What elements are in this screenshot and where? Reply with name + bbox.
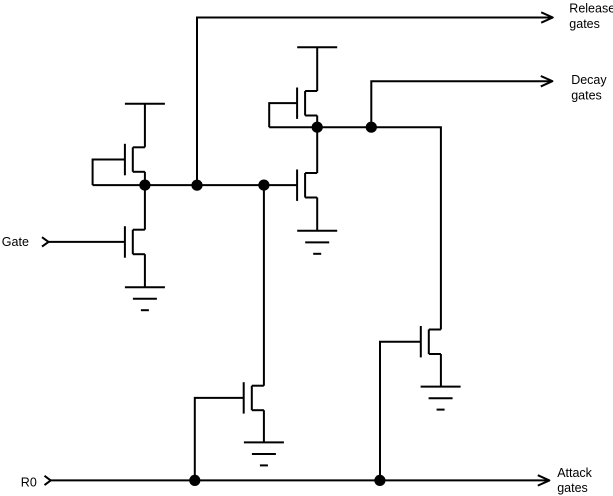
transistor Q2 (left driver) bbox=[125, 226, 145, 258]
transistor Q3 (right load) bbox=[297, 88, 317, 119]
transistor Q5 (bottom middle) bbox=[244, 382, 264, 413]
ground G4 bbox=[421, 387, 461, 410]
wire: Q3 drain to V2 bbox=[316, 47, 318, 91]
wire: Q2 drain to node A bbox=[144, 185, 146, 230]
wire: Q5 source to ground bbox=[263, 410, 265, 442]
ground G1 bbox=[125, 287, 165, 310]
wire: Q6 gate lead down to bottom rail node N7 bbox=[380, 342, 421, 481]
node (release tap) bbox=[191, 180, 202, 191]
node N7 (bottom rail / Q6 gate) bbox=[374, 475, 385, 486]
arrowhead Release output bbox=[541, 12, 553, 22]
node A (left inverter output) bbox=[139, 180, 150, 191]
arrowhead Decay output bbox=[541, 76, 553, 86]
ground G2 bbox=[297, 231, 337, 254]
svg-text:R0: R0 bbox=[21, 476, 37, 490]
power rail V1 (left inverter) bbox=[125, 103, 165, 105]
wire: Q5 gate lead down to bottom rail node N6 bbox=[195, 398, 244, 481]
wire: top rail from node A up and right to Release output bbox=[197, 18, 552, 186]
svg-text:Attack: Attack bbox=[557, 466, 592, 480]
svg-text:Gate: Gate bbox=[2, 235, 29, 249]
input chevron R0 bbox=[45, 476, 51, 485]
wire: Q3 gate feedback loop to node N4 bbox=[269, 103, 297, 127]
wire: node B down to Q5 drain bbox=[263, 185, 265, 386]
svg-text:gates: gates bbox=[557, 481, 588, 495]
label Release gates bbox=[569, 2, 613, 31]
node B (gate of Q4 / Q5 drain tap) bbox=[258, 180, 269, 191]
node N5 (decay tap) bbox=[366, 122, 377, 133]
wire: Gate input lead to Q2 gate bbox=[49, 241, 125, 243]
wire: output rail y=127 over to Q6 drain bbox=[269, 127, 441, 329]
svg-text:Release: Release bbox=[569, 2, 613, 16]
arrowhead Attack output bbox=[538, 475, 550, 485]
node N6 (bottom rail / Q5 gate) bbox=[189, 475, 200, 486]
input chevron Gate bbox=[42, 237, 49, 246]
wire: Q1 gate feedback loop to output node bbox=[93, 160, 125, 186]
wire: Q2 source to ground bbox=[144, 254, 146, 287]
label Decay gates bbox=[571, 73, 607, 103]
transistor Q4 (right driver) bbox=[297, 170, 317, 201]
transistor Q1 (left load) bbox=[125, 144, 145, 176]
ground G3 bbox=[244, 442, 284, 465]
svg-text:gates: gates bbox=[571, 88, 602, 102]
wire: Q1 drain to V1 bbox=[144, 104, 146, 148]
wire: Q6 source to ground bbox=[440, 354, 442, 387]
label Attack gates bbox=[557, 466, 592, 495]
wire: main output rail y=185 bbox=[93, 184, 298, 186]
node N4 (right inverter output) bbox=[312, 122, 323, 133]
wire: Q4 source to ground bbox=[316, 198, 318, 231]
svg-text:gates: gates bbox=[569, 17, 600, 31]
label R0 input bbox=[21, 476, 37, 490]
wire: Q3 source to node N4 bbox=[316, 116, 318, 128]
label Gate input bbox=[2, 235, 29, 249]
transistor Q6 (bottom right) bbox=[421, 326, 441, 357]
wire: Q1 source to node A bbox=[144, 172, 146, 185]
wire: bottom rail R0 to Attack output bbox=[51, 479, 549, 481]
power rail V2 (right inverter) bbox=[297, 46, 337, 48]
svg-text:Decay: Decay bbox=[571, 73, 607, 87]
wire: Q4 drain to node N4 bbox=[316, 127, 318, 173]
wire: decay branch from node N5 up and right to Decay output bbox=[371, 81, 551, 127]
